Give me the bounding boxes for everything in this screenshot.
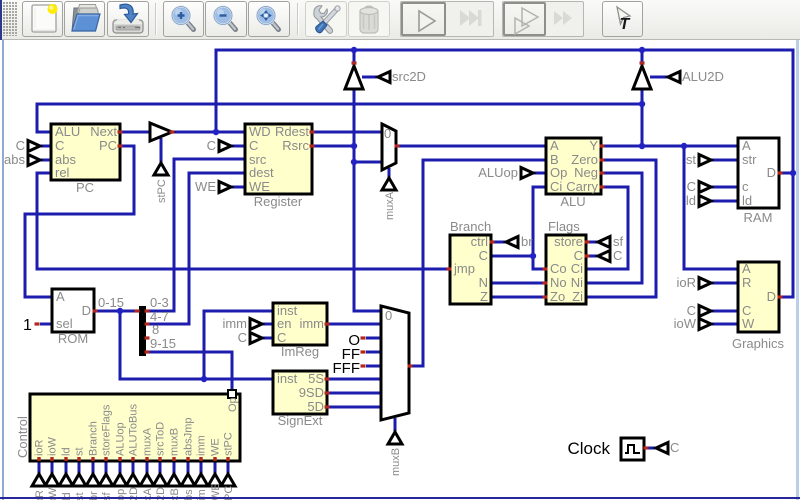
op-amp ALU [546,138,601,194]
pin Control.sf [104,457,107,461]
connector ioW [699,319,711,330]
svg-text:C: C [687,179,696,194]
wire D-bus: top rail from Register-WD riser across to right side down to RAM/Graphics D [216,50,793,297]
svg-text:muxB: muxB [390,448,402,476]
pin Branch.jmp [447,267,452,270]
svg-text:Zo: Zo [550,289,565,304]
pin RAM.D [778,171,783,174]
wire Branch C tap [491,255,533,258]
svg-text:dest: dest [249,165,274,180]
register ImReg [273,303,327,345]
svg-text:8: 8 [152,322,159,337]
connector im (Control output 13) [194,474,208,486]
pin ImReg.imm [325,322,330,325]
svg-text:ctrl: ctrl [471,234,488,249]
svg-text:st: st [686,152,697,167]
svg-text:ALUop: ALUop [478,165,518,180]
svg-text:Ni: Ni [571,275,583,290]
svg-text:ALU: ALU [560,194,585,209]
svg-text:store: store [554,234,583,249]
clock waveform glyph [625,445,640,453]
pin Control.op [118,457,121,461]
svg-text:muxB: muxB [169,428,181,456]
connector xA (Control output 9) [140,474,154,486]
svg-text:en: en [277,316,291,331]
pin Control.xB [172,457,175,461]
wire Control pin stub 3 [65,461,68,474]
pin Branch.ctrl [490,240,495,243]
wire WE connector to Register WE [231,186,245,189]
wire Register Rdest to muxA in0 [312,131,382,134]
pin Control.PC [226,457,229,461]
svg-text:Branch: Branch [88,421,100,456]
wire stPC buffer output to Register WD (joins D-bus riser) [172,131,245,134]
svg-text:Rsrc: Rsrc [282,138,309,153]
svg-text:muxA: muxA [142,427,154,456]
wire src2D buffer output up to D-bus [353,50,356,65]
svg-text:C: C [249,138,258,153]
svg-text:storeFlags: storeFlags [101,404,113,456]
wire PC output to ROM A [25,146,134,297]
pin ALU2D buffer output [640,61,645,64]
svg-text:Zi: Zi [572,289,583,304]
wire C connector to Register C [231,145,245,148]
svg-text:ld: ld [686,193,696,208]
svg-text:Op: Op [227,397,239,412]
pin Graphics.D [778,295,783,298]
pin PC.PC [118,144,123,147]
svg-text:9-15: 9-15 [150,336,176,351]
connector C (clock out) [656,443,668,454]
wire stPC buffer enable stub [160,138,163,163]
svg-text:A: A [56,289,65,304]
connector bs (Control output 12) [181,474,195,486]
node D-bus / src2D junction [351,47,357,53]
svg-text:No: No [550,275,567,290]
svg-text:ld: ld [61,447,73,456]
wire splitter 9-15 to Control Op pin [146,352,232,391]
pin Control.ld [64,457,67,461]
wire Control pin stub 11 [173,461,176,474]
svg-text:ROM: ROM [58,331,88,346]
pin Clock.out [644,446,649,449]
tri-state buffer src2D [345,66,363,89]
logic Branch [450,235,491,304]
svg-text:ioW: ioW [47,436,59,456]
connector ld (Control output 3) [59,474,73,486]
svg-text:ioR: ioR [676,275,696,290]
wire muxA select stub [388,168,391,178]
svg-text:srcToD: srcToD [155,422,167,456]
svg-text:SignExt: SignExt [278,413,323,428]
sign extender SignExt [273,371,327,414]
pin ALU.Y [600,144,605,147]
svg-text:ALUop: ALUop [115,422,127,456]
connector br (Control output 5) [86,474,100,486]
connector abs [28,155,40,166]
node ROM D / instruction-bus junction [117,308,123,314]
pin src2D buffer output [352,61,357,64]
svg-text:W: W [742,316,755,331]
pin Control.st [77,457,80,461]
pin Control.bs [186,457,189,461]
connector ld [699,196,711,207]
pin Register.Rdest [310,130,315,133]
svg-text:D: D [767,165,776,180]
wire Control pin stub 1 [38,461,41,474]
node ALU Y / A-bus junction [681,143,687,149]
svg-text:ImReg: ImReg [281,344,319,359]
node D-bus / ALU2D junction [639,47,645,53]
wire C connector to PC C input [40,145,51,148]
pin stPC buffer output [170,130,175,133]
svg-text:ld: ld [742,193,752,208]
svg-text:c: c [742,179,749,194]
pin constant FFF [361,364,366,367]
svg-text:FFF: FFF [333,360,361,377]
pin Flags.C [585,254,590,257]
pin ROM.D [93,309,98,312]
wire Flags Zo to Branch Z [491,296,546,299]
wire abs connector to PC abs input [40,159,51,162]
register Flags [546,235,586,304]
svg-text:Neg: Neg [574,165,598,180]
svg-text:Carry: Carry [566,179,598,194]
pin constant FF [361,350,366,353]
pin ALU.Carry [600,185,605,188]
svg-text:muxA: muxA [384,191,396,220]
pin Flags.Zo [543,295,548,298]
wire instruction bus to SignExt inst [120,311,273,379]
connector sf [598,237,610,248]
connector muxA [382,178,396,190]
svg-text:ioW: ioW [674,316,697,331]
connector WE (Control output 14) [208,474,222,486]
svg-text:Graphics: Graphics [732,336,785,351]
wire Branch ctrl to br connector [491,241,506,244]
wire ioW connector to Graphics W [711,323,738,326]
svg-text:sf: sf [613,234,624,249]
pin SignExt.9SD [325,391,330,394]
svg-text:R: R [742,275,751,290]
svg-text:imm: imm [196,435,208,456]
wire Control pin stub 14 [214,461,217,474]
wire constant FFF to muxB [366,365,381,368]
wire Control pin stub 8 [132,461,135,474]
pin ALU.Neg [600,171,605,174]
connector st [699,155,711,166]
wire SignExt 5D to muxB [327,406,381,409]
pin constant-1 output [35,322,40,325]
node RAM D / D-bus junction [790,170,796,176]
wire Control pin stub 12 [187,461,190,474]
wire Flags Co to ALU Ci and Branch C [533,187,546,269]
connector C (to PC) [28,141,40,152]
connector stPC [154,163,168,175]
node Branch C / carry junction [530,253,536,259]
wire Control pin stub 4 [78,461,81,474]
pin Flags.store [585,240,590,243]
register bank Register [245,124,312,194]
wire ioR connector to Graphics R [711,282,738,285]
svg-text:A: A [550,138,559,153]
svg-text:imm: imm [222,316,247,331]
pin Flags.Co [543,267,548,270]
wire ALU2D buffer output up to D-bus [641,50,644,65]
wire ld connector to RAM ld [711,200,738,203]
pin muxB.out [408,364,413,367]
wire muxB select stub [394,418,397,432]
memory RAM [738,138,779,208]
svg-text:PC: PC [99,138,117,153]
svg-text:9SD: 9SD [299,385,324,400]
node ALU-feedback / ALU2D-input junction [639,101,645,107]
pin ALU.Zero [600,158,605,161]
svg-text:imm: imm [299,316,324,331]
svg-text:stPC: stPC [223,432,235,456]
connector st (Control output 4) [72,474,86,486]
svg-text:C: C [670,440,679,455]
wire Control pin stub 5 [92,461,95,474]
wire constant 1 to ROM sel [40,323,52,326]
svg-text:Rdest: Rdest [275,124,309,139]
bus splitter 0-15 [139,306,146,356]
pin Control.WE [213,457,216,461]
wire constant FF to muxB [366,351,381,354]
wire SignExt 9SD to muxB [327,392,381,395]
svg-text:D: D [767,289,776,304]
svg-text:C: C [207,138,216,153]
register PC [51,124,120,180]
wire C connector to Graphics C [711,310,738,313]
svg-text:br: br [521,234,533,249]
wire RAM D output to D-bus [779,172,793,175]
connector ALU2D [668,72,680,83]
decoder Control [30,394,240,461]
svg-text:WE: WE [249,179,270,194]
svg-text:C: C [238,330,247,345]
wire ALU Zero to Flags Zi [586,160,656,297]
svg-text:5S: 5S [308,371,324,386]
svg-text:Flags: Flags [548,219,580,234]
connector 2D (Control output 10) [153,474,167,486]
wire st connector to RAM str [711,159,738,162]
svg-text:N: N [479,275,488,290]
connector src2D [378,72,390,83]
svg-text:absJmp: absJmp [183,417,195,456]
svg-text:st: st [74,447,86,456]
connector WE [219,182,231,193]
pin Control.ioW [50,457,53,461]
svg-text:PC: PC [76,180,94,195]
svg-text:src2D: src2D [392,69,426,84]
memory ROM [52,289,94,332]
pin splitter 9-15 [145,350,150,353]
pin Control.im [199,457,202,461]
wire Control pin stub 10 [159,461,162,474]
node muxA in1 / src-bus junction [351,159,357,165]
connector 2D (Control output 8) [126,474,140,486]
wire ImReg inst tap [204,311,273,379]
svg-text:0-15: 0-15 [98,295,124,310]
svg-text:WD: WD [249,124,271,139]
svg-text:0: 0 [384,126,391,141]
svg-text:Clock: Clock [567,439,610,458]
svg-text:C: C [277,330,286,345]
wire Flags No to Branch N [491,282,546,285]
wire C connector to ImReg C [262,337,273,340]
pin splitter 4-7 [145,322,150,325]
wire ALU Y feedback to PC ALU input [37,104,642,132]
wire Control pin stub 15 [227,461,230,474]
wire Branch jmp to PC rel [37,173,450,269]
svg-text:WE: WE [195,179,216,194]
wire constant 0 to muxB [366,337,381,340]
svg-text:abs: abs [4,152,25,167]
wire A-bus down to Graphics A [684,146,738,269]
wire Control pin stub 7 [119,461,122,474]
svg-text:Ci: Ci [550,179,562,194]
wire SignExt 5S to muxB [327,378,381,381]
svg-text:1: 1 [23,317,32,334]
wire Register Rsrc to src-bus [312,145,354,148]
connector ioW (Control output 2) [45,474,59,486]
svg-text:stPC: stPC [156,179,168,203]
wire ALU2D enable [650,76,668,79]
wire Control pin stub 6 [105,461,108,474]
svg-text:ALU2D: ALU2D [682,69,724,84]
connector sf (Control output 6) [99,474,113,486]
io Graphics [738,262,779,332]
wire ImReg imm output to muxB in1 [327,323,381,326]
svg-text:C: C [55,138,64,153]
svg-text:ALU: ALU [55,124,80,139]
mux muxB (8:1) [381,306,409,420]
wire Flags C to C connector [586,255,598,258]
pin muxA.out [395,144,400,147]
svg-text:Branch: Branch [450,219,491,234]
clock generator Clock [621,438,644,460]
wire muxA output to ALU A [396,145,546,148]
pin Control.xA [145,457,148,461]
connector op (Control output 7) [113,474,127,486]
wire Control pin stub 13 [200,461,203,474]
pin SignExt.5S [325,377,330,380]
svg-text:rel: rel [55,165,70,180]
wire src2D enable [362,76,378,79]
pin PC.Next [118,130,123,133]
tri-state buffer ALU2D [633,66,651,89]
pin splitter 0-3 [145,309,150,312]
connector C (to ImReg) [250,333,262,344]
connector br [506,237,518,248]
svg-text:sel: sel [56,316,73,331]
svg-text:C: C [479,248,488,263]
svg-text:0: 0 [385,308,392,323]
svg-text:Ci: Ci [571,261,583,276]
pin Control.br [91,457,94,461]
Control Op pin square [228,390,236,398]
wire splitter 4-7 to Register dest [146,173,245,324]
pin Flags.No [543,281,548,284]
svg-text:0-3: 0-3 [150,295,169,310]
svg-text:C: C [16,138,25,153]
svg-text:RAM: RAM [744,210,773,225]
node ALU Y / ALU2D junction [639,143,645,149]
wire imm connector to ImReg en [262,323,273,326]
wire Flags store to sf connector [586,241,598,244]
wire ALU Carry to Flags Ci [586,187,628,269]
connector PC (Control output 15) [221,474,235,486]
svg-text:inst: inst [277,371,298,386]
node D-bus / Register WD junction [213,129,219,135]
pin Control.2D [158,457,161,461]
wire ALU2D buffer input from ALU Y [641,90,644,146]
connector ALUop [521,168,533,179]
svg-text:T: T [620,16,631,33]
pin Register.Rsrc [310,144,315,147]
wire PC Next output into stPC buffer [120,131,150,134]
svg-text:Control: Control [15,416,30,458]
wire src-bus tap to muxA in1 [354,161,382,164]
wire C connector to RAM c [711,186,738,189]
connector C (to Register) [219,141,231,152]
svg-text:A: A [742,261,751,276]
wire ALUop connector to ALU Op [533,172,546,175]
wire src-bus: src2D buffer input down left mux input and muxB input 0 [354,90,381,311]
connector imm [250,319,262,330]
wire Control pin stub 2 [51,461,54,474]
wire splitter 0-3 to Register src [146,159,245,311]
wire ROM D to bus splitter (0-15) [94,310,139,313]
pin Control.ioR [37,457,40,461]
svg-text:Op: Op [550,165,567,180]
connector ioR (Control output 1) [32,474,46,486]
pin SignExt.5D [325,405,330,408]
connector C (to Graphics) [699,306,711,317]
tri-state buffer stPC (PC Next to D-bus) [150,123,172,141]
node Rsrc / src-bus junction [351,143,357,149]
svg-text:5D: 5D [307,399,324,414]
connector muxB [388,432,402,444]
svg-text:WE: WE [210,438,222,456]
svg-text:Register: Register [254,194,303,209]
wire Clock output to C connector [645,447,656,450]
svg-text:Co: Co [550,261,567,276]
connector xB (Control output 11) [167,474,181,486]
pin splitter 8 [145,336,150,339]
svg-text:Next: Next [90,124,117,139]
pin splitter input [135,309,140,312]
svg-text:jmp: jmp [453,261,475,276]
wire Control pin stub 9 [146,461,149,474]
pin constant 0 [361,336,366,339]
wire ALU Neg to Flags Ni [586,173,642,283]
pin Control.2D [131,457,134,461]
svg-text:D: D [82,303,91,318]
svg-text:Y: Y [589,138,598,153]
svg-text:C: C [613,248,622,263]
mux muxA (2:1) [382,124,396,170]
wire muxB output up to ALU B [409,160,546,366]
svg-text:ioR: ioR [34,439,46,456]
svg-text:Z: Z [480,289,488,304]
wire ALU Y to RAM A [601,145,738,148]
connector C (to RAM) [699,182,711,193]
svg-text:ALUToBus: ALUToBus [128,404,140,456]
svg-text:str: str [742,152,757,167]
svg-text:A: A [742,138,751,153]
